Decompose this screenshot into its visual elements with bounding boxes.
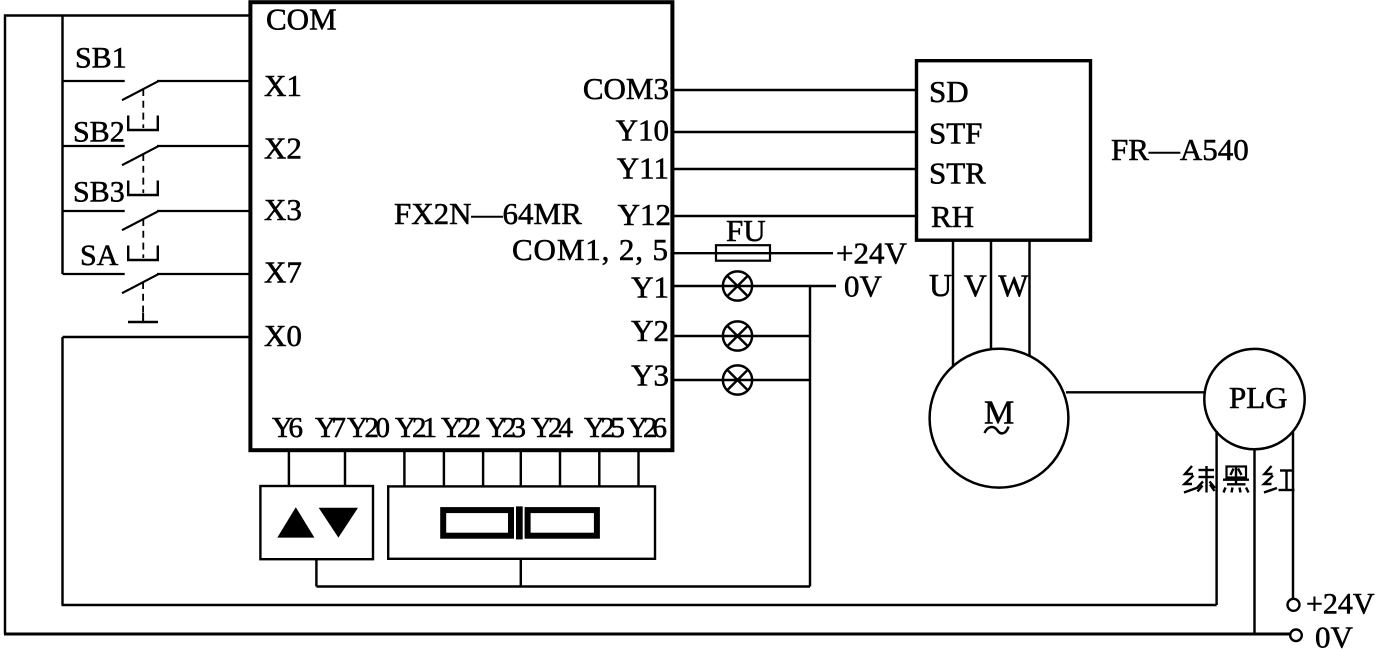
svg-text:PLG: PLG <box>1229 380 1288 415</box>
svg-text:Y22: Y22 <box>441 412 481 444</box>
display middle bar <box>516 506 523 539</box>
svg-text:+24V: +24V <box>1306 588 1375 621</box>
motor M circle <box>930 349 1069 488</box>
switch SB2 <box>63 146 253 195</box>
stub Y6 <box>288 452 290 486</box>
svg-text:X3: X3 <box>264 192 302 227</box>
wire PLG black <box>1253 448 1255 634</box>
wire stub under arrow box <box>315 559 317 587</box>
stub Y24 <box>559 452 561 486</box>
switch SA <box>63 274 253 322</box>
switch SB3 <box>63 211 253 260</box>
svg-text:Y7: Y7 <box>315 412 346 444</box>
stub Y7 <box>344 452 346 486</box>
wire motor to PLG <box>1066 391 1205 393</box>
svg-text:Y2: Y2 <box>631 313 669 348</box>
svg-text:Y24: Y24 <box>531 412 574 444</box>
svg-text:STR: STR <box>929 156 986 191</box>
svg-text:0V: 0V <box>844 269 883 304</box>
switch SB1 <box>63 81 253 130</box>
svg-text:COM: COM <box>266 2 337 37</box>
svg-text:FX2N—64MR: FX2N—64MR <box>394 196 582 231</box>
wire PLG red <box>1292 431 1294 599</box>
wire COM3 to SD <box>672 89 915 91</box>
wire stub under display box <box>520 559 522 587</box>
lamp HL1 <box>723 271 752 300</box>
wire Y2 lamp <box>672 335 810 337</box>
wire Y1 lamp <box>672 285 836 287</box>
stub Y25 <box>598 452 600 486</box>
svg-text:SB2: SB2 <box>73 116 125 149</box>
wire PLG green <box>1215 431 1217 605</box>
wire COM1,2,5 to +24V <box>672 252 833 254</box>
stub Y26 <box>637 452 639 486</box>
svg-text:+24V: +24V <box>836 236 907 271</box>
svg-text:V: V <box>964 268 987 304</box>
svg-text:RH: RH <box>931 199 974 234</box>
wire lamp 0V bus <box>809 286 811 587</box>
wire Y11 to STR <box>672 168 915 170</box>
svg-text:SA: SA <box>80 239 119 272</box>
lamp HL3 <box>723 365 752 394</box>
svg-text:Y1: Y1 <box>631 270 669 305</box>
svg-text:COM1, 2, 5: COM1, 2, 5 <box>512 232 668 267</box>
svg-text:COM3: COM3 <box>583 71 669 106</box>
svg-text:Y3: Y3 <box>631 358 669 393</box>
svg-text:SB3: SB3 <box>73 176 125 209</box>
hanzi red <box>1264 466 1295 493</box>
hanzi green <box>1184 466 1215 493</box>
arrow up triangle <box>277 507 314 537</box>
motor tilde <box>985 427 1009 434</box>
inverter FR-A540 box <box>917 61 1091 241</box>
lamp HL2 <box>723 321 752 350</box>
wire X0 horizontal <box>63 336 253 338</box>
svg-text:SD: SD <box>929 74 969 109</box>
wire bottom 0V horizontal <box>4 633 1291 636</box>
terminal +24V circle <box>1288 599 1300 611</box>
PLC FX2N-64MR box <box>250 2 672 450</box>
svg-text:M: M <box>984 395 1014 432</box>
wire Y10 to STF <box>672 131 915 133</box>
wire horizontal to PLG green <box>62 604 1217 606</box>
wire horizontal under boxes <box>316 585 810 587</box>
svg-text:W: W <box>998 268 1029 304</box>
svg-text:Y23: Y23 <box>486 412 526 444</box>
svg-text:FR—A540: FR—A540 <box>1111 132 1249 167</box>
svg-text:X7: X7 <box>264 255 302 290</box>
wire left 0V bus vertical <box>4 15 6 635</box>
svg-text:STF: STF <box>929 116 982 151</box>
svg-text:Y10: Y10 <box>616 113 669 148</box>
arrow keys box <box>260 486 373 559</box>
encoder PLG circle <box>1204 349 1304 449</box>
svg-text:X1: X1 <box>264 68 302 103</box>
display box <box>388 486 655 558</box>
display left segment <box>443 510 511 536</box>
wire V phase <box>990 240 992 350</box>
svg-text:Y20: Y20 <box>347 412 390 444</box>
svg-text:Y21: Y21 <box>395 412 437 444</box>
svg-text:0V: 0V <box>1315 620 1354 650</box>
stub Y22 <box>482 452 484 486</box>
svg-text:Y6: Y6 <box>272 412 303 444</box>
wire Y12 to RH <box>672 215 915 217</box>
wire W phase <box>1028 240 1030 357</box>
svg-text:U: U <box>929 267 952 303</box>
terminal 0V circle <box>1290 630 1302 642</box>
svg-text:Y25: Y25 <box>584 412 625 444</box>
fuse FU <box>716 245 770 261</box>
svg-text:X2: X2 <box>264 131 302 166</box>
wire U phase <box>952 240 954 367</box>
arrow down triangle <box>319 508 358 538</box>
wire Y3 lamp <box>672 379 810 381</box>
stub Y20 <box>403 452 405 486</box>
svg-text:SB1: SB1 <box>75 42 127 75</box>
wire switch bus upper segment <box>61 15 63 275</box>
svg-text:Y26: Y26 <box>627 412 667 444</box>
hanzi black <box>1223 466 1249 493</box>
svg-text:Y12: Y12 <box>618 197 671 232</box>
svg-text:X0: X0 <box>264 318 302 353</box>
stub Y23 <box>520 452 522 486</box>
stub Y21 <box>443 452 445 486</box>
wire COM top horizontal <box>4 14 252 16</box>
svg-text:FU: FU <box>726 213 766 248</box>
svg-text:Y11: Y11 <box>617 151 669 186</box>
wire switch bus lower segment <box>61 337 63 605</box>
display right segment <box>528 510 597 536</box>
